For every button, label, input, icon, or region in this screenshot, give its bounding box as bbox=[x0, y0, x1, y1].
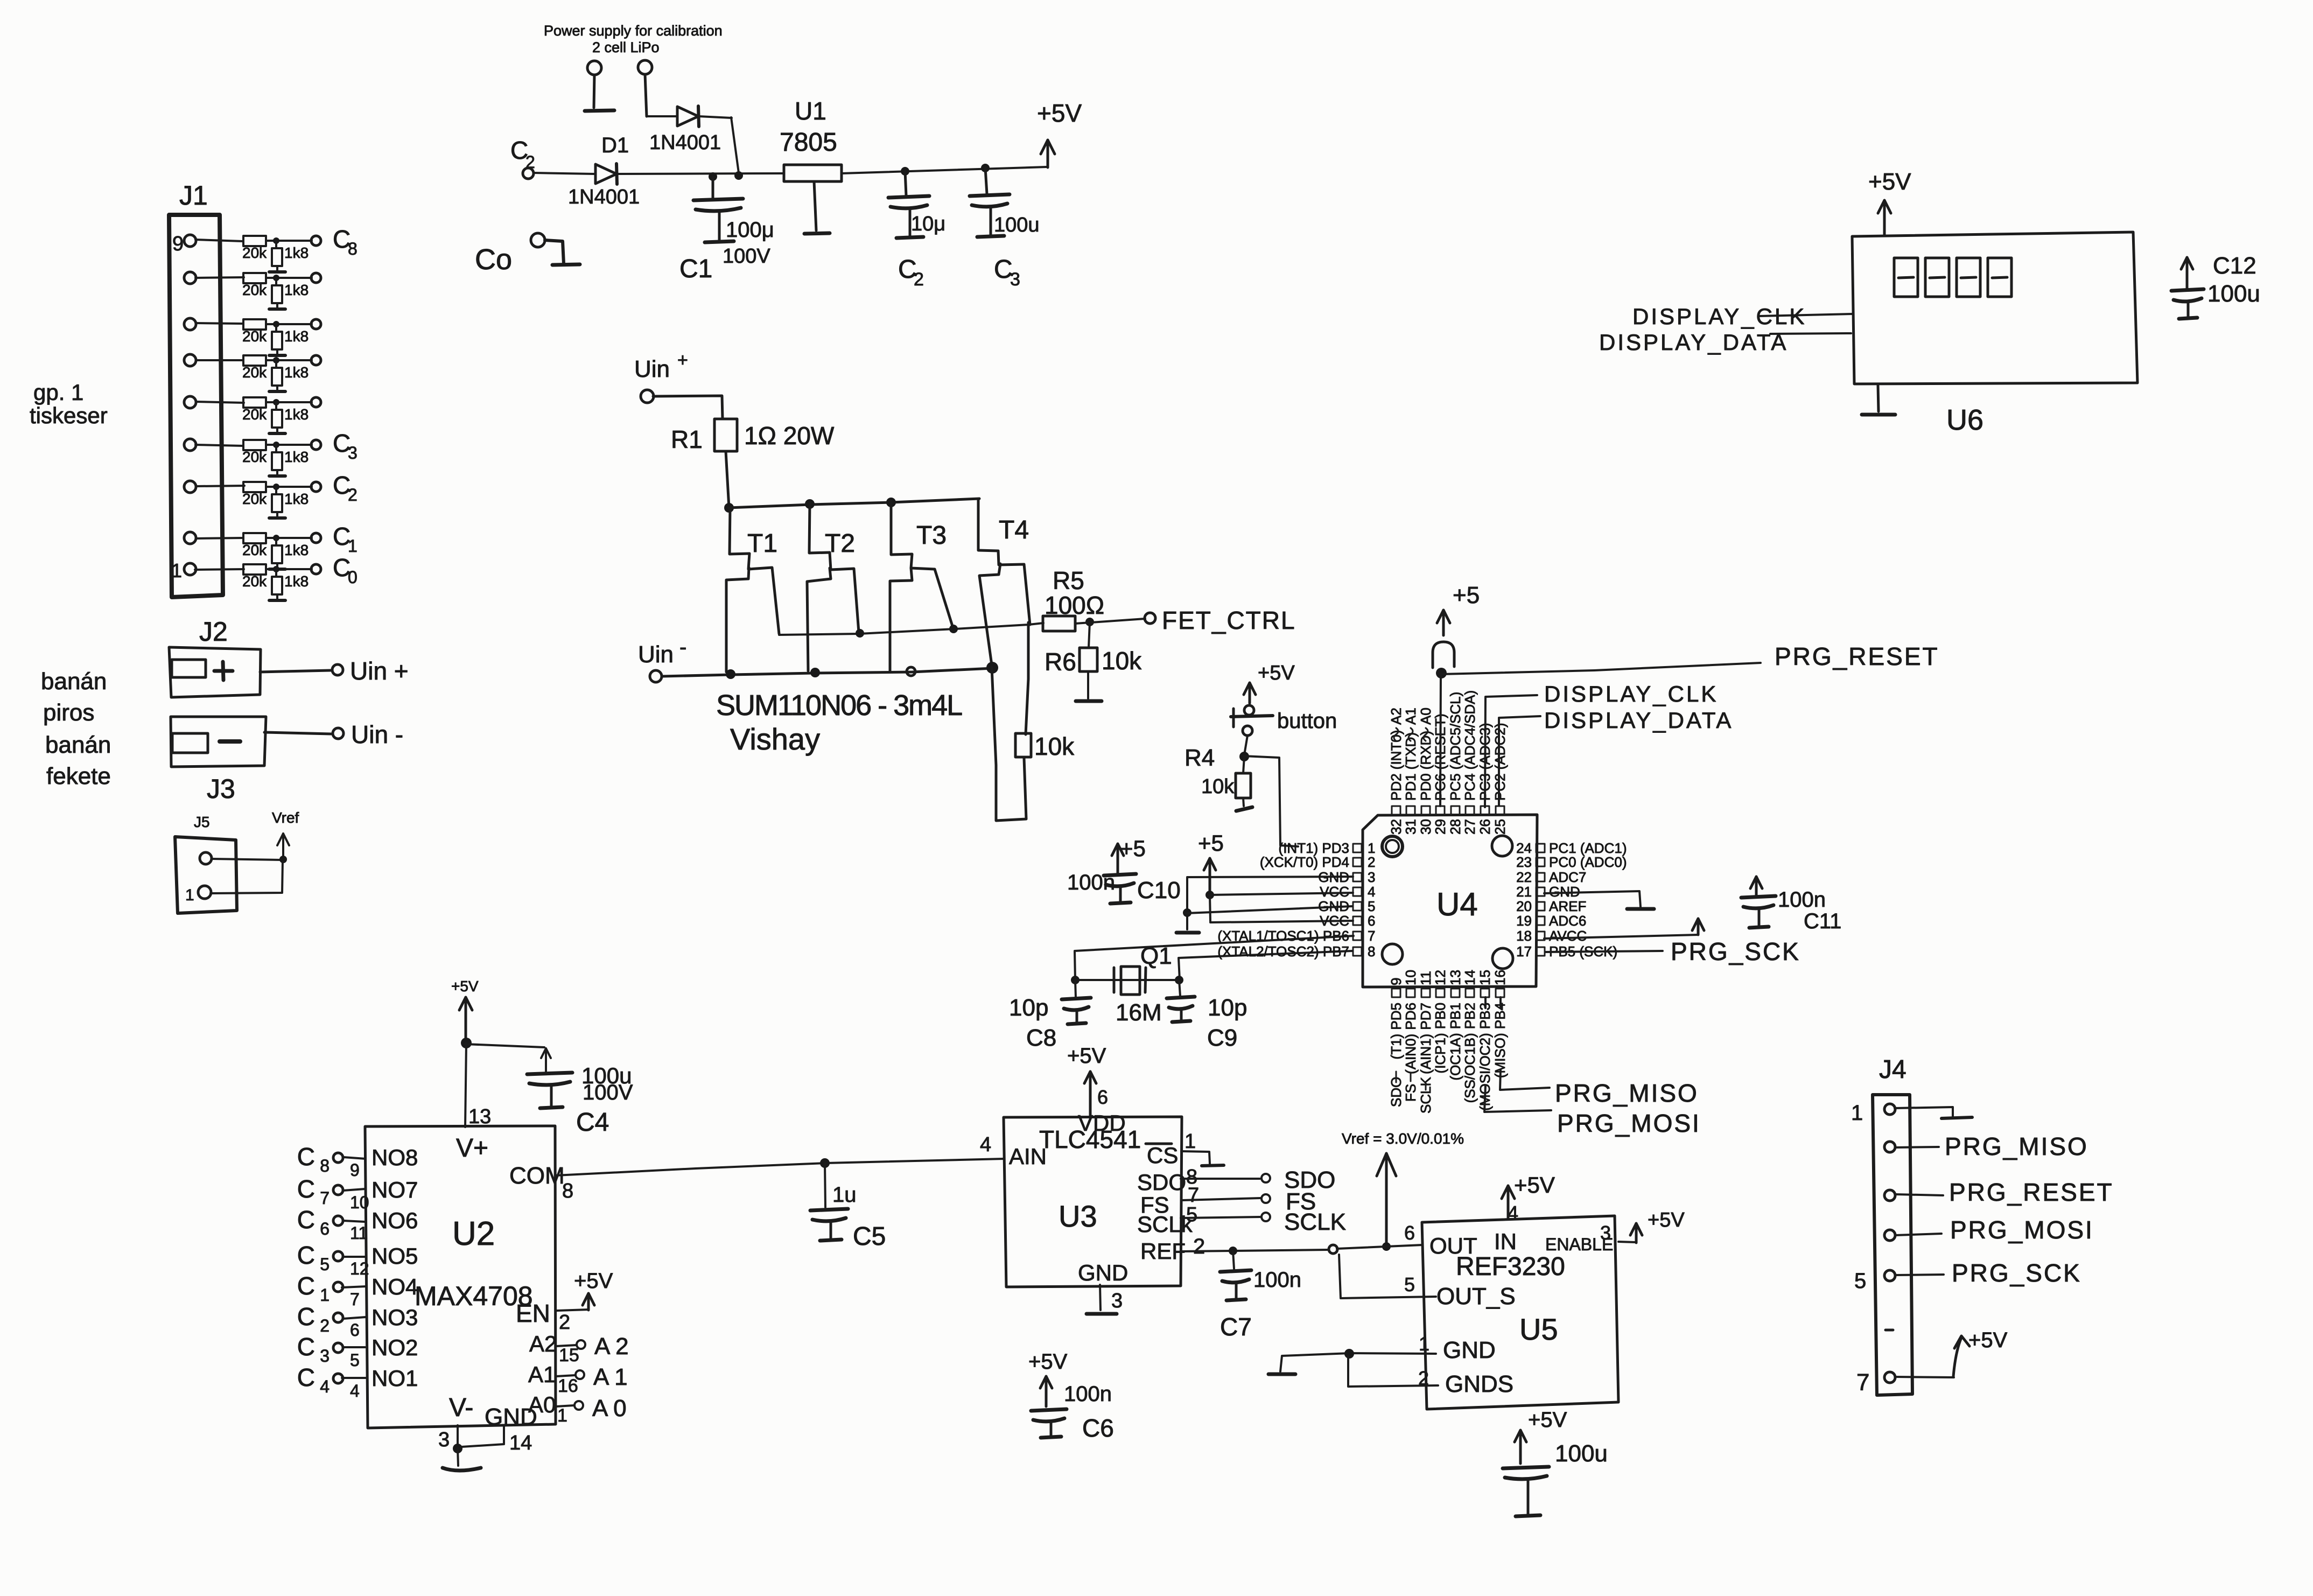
svg-text:14: 14 bbox=[509, 1432, 532, 1454]
svg-text:Co: Co bbox=[475, 243, 512, 276]
node drain rail bbox=[724, 503, 734, 513]
svg-text:20k: 20k bbox=[242, 244, 267, 261]
wire PRG_RESET bbox=[1441, 663, 1761, 674]
svg-text:1N4001: 1N4001 bbox=[568, 186, 640, 208]
transistor T4 bbox=[978, 500, 1030, 669]
label J3 bbox=[207, 774, 235, 804]
J1 pin row 6 wire bbox=[184, 439, 243, 451]
note banan piros bbox=[41, 668, 107, 726]
label Vishay bbox=[730, 722, 820, 756]
J1 pin row 4 wire bbox=[184, 354, 243, 366]
svg-text:C: C bbox=[297, 1143, 315, 1171]
svg-text:32: 32 bbox=[1388, 819, 1404, 835]
wire PRG_MOSI bbox=[1484, 997, 1551, 1112]
U5 pin 1 GND bbox=[1419, 1333, 1496, 1363]
svg-text:A2: A2 bbox=[1388, 708, 1404, 725]
resistor 20k row 5 bbox=[242, 397, 267, 423]
svg-text:PRG_MISO: PRG_MISO bbox=[1945, 1132, 2088, 1160]
svg-text:gp. 1: gp. 1 bbox=[33, 380, 83, 405]
svg-text:1Ω 20W: 1Ω 20W bbox=[744, 422, 835, 450]
svg-text:U4: U4 bbox=[1436, 886, 1478, 922]
resistor 20k row 9 bbox=[242, 564, 267, 590]
wire GND (pin21) bbox=[1544, 891, 1654, 909]
svg-text:CS: CS bbox=[1147, 1143, 1178, 1168]
svg-text:6: 6 bbox=[350, 1320, 360, 1340]
svg-text:C11: C11 bbox=[1804, 909, 1841, 933]
wire bbox=[1075, 979, 1179, 981]
U4 pin 6 VCC bbox=[1320, 913, 1375, 929]
net Vref 3.0V bbox=[1342, 1130, 1464, 1147]
svg-text:100n: 100n bbox=[1253, 1268, 1301, 1292]
capacitor C5 bbox=[810, 1163, 848, 1241]
svg-text:18: 18 bbox=[1516, 928, 1532, 944]
svg-text:29: 29 bbox=[1432, 819, 1448, 835]
U3 pin 1 CS bbox=[1146, 1130, 1224, 1168]
svg-text:100u: 100u bbox=[2207, 281, 2260, 307]
svg-text:2: 2 bbox=[559, 1311, 570, 1334]
junction bbox=[1239, 752, 1249, 761]
+5V (button) bbox=[1244, 662, 1295, 703]
capacitor C4 bbox=[527, 1073, 572, 1108]
wire DISPLAY_CLK bbox=[1485, 695, 1537, 807]
U3 pin 8 SDO bbox=[1137, 1166, 1335, 1195]
U1 ground bbox=[804, 181, 830, 234]
junction bbox=[986, 662, 998, 674]
svg-text:SCLK: SCLK bbox=[1418, 1076, 1434, 1114]
svg-text:AIN: AIN bbox=[1009, 1144, 1047, 1169]
svg-text:SCLk: SCLk bbox=[1137, 1212, 1193, 1237]
J1 pin 9 number bbox=[172, 233, 184, 255]
connector J2 bbox=[169, 617, 261, 697]
note banan fekete bbox=[45, 732, 111, 789]
U2 input NO3 (C2) bbox=[297, 1303, 418, 1340]
svg-text:SDO: SDO bbox=[1137, 1170, 1186, 1195]
svg-text:20k: 20k bbox=[242, 449, 267, 465]
svg-text:PRG_RESET: PRG_RESET bbox=[1949, 1178, 2114, 1206]
svg-text:12: 12 bbox=[350, 1259, 369, 1278]
U4 pin 31 PD1 (TXD) bbox=[1403, 732, 1419, 835]
wire bbox=[616, 173, 783, 174]
svg-text:GND: GND bbox=[1318, 898, 1349, 914]
svg-text:button: button bbox=[1277, 709, 1337, 733]
U2 input NO5 (C5) bbox=[297, 1241, 418, 1278]
svg-text:8: 8 bbox=[320, 1156, 330, 1175]
junction bbox=[709, 172, 717, 181]
svg-text:FET_CTRL: FET_CTRL bbox=[1162, 606, 1296, 634]
U6 digit 4 bbox=[1988, 258, 2011, 297]
svg-text:A 2: A 2 bbox=[594, 1333, 629, 1360]
node C2 input terminal bbox=[510, 136, 535, 179]
resistor R6 bbox=[1076, 622, 1102, 701]
label 100n bbox=[1778, 888, 1826, 912]
U4 corner mark bbox=[1382, 944, 1403, 964]
U4 pin 14 (SS/OC1B) PB2 bbox=[1462, 970, 1478, 1103]
connector J1 bbox=[169, 180, 223, 597]
U4 pin 30 PD0 (RXD) bbox=[1418, 731, 1434, 835]
svg-text:2 cell LiPo: 2 cell LiPo bbox=[592, 39, 660, 55]
IC U2 body bbox=[365, 1126, 556, 1428]
junction bbox=[273, 399, 279, 405]
wire PRG_MISO bbox=[1500, 997, 1550, 1090]
resistor R1 bbox=[671, 419, 835, 453]
U6 digit 1 bbox=[1894, 258, 1918, 297]
svg-text:R6: R6 bbox=[1045, 648, 1076, 676]
svg-text:VCC: VCC bbox=[1320, 913, 1349, 929]
svg-text:+5V: +5V bbox=[1648, 1209, 1685, 1231]
net PRG_SCK bbox=[1671, 937, 1800, 965]
svg-text:1k8: 1k8 bbox=[284, 328, 309, 345]
+5 (reset pull) bbox=[1437, 582, 1480, 635]
svg-text:3: 3 bbox=[1111, 1290, 1123, 1312]
wire bbox=[1440, 673, 1441, 806]
svg-text:U3: U3 bbox=[1059, 1199, 1097, 1233]
wire bbox=[266, 401, 312, 403]
U2 input NO6 (C6) bbox=[297, 1206, 418, 1243]
capacitor C12 bbox=[2171, 253, 2260, 319]
svg-text:OUT: OUT bbox=[1429, 1233, 1477, 1258]
svg-text:+5V: +5V bbox=[1067, 1044, 1106, 1068]
U2 pin 8 COM bbox=[509, 1163, 573, 1202]
resistor R5 bbox=[1043, 566, 1104, 631]
U2 input NO4 (C1) bbox=[297, 1272, 418, 1309]
svg-text:fekete: fekete bbox=[46, 763, 111, 789]
resistor 1k8 row 9 bbox=[269, 569, 309, 600]
wire drain rail bbox=[728, 499, 979, 508]
svg-text:1: 1 bbox=[185, 886, 194, 904]
U4 pin 28 PC5 (ADC5/SCL) bbox=[1447, 692, 1463, 835]
label 100u bbox=[1555, 1440, 1608, 1467]
svg-text:5: 5 bbox=[350, 1350, 360, 1370]
svg-text:VCC: VCC bbox=[1320, 884, 1349, 900]
output terminal row 6 bbox=[311, 440, 321, 450]
net Vref bbox=[272, 809, 299, 858]
svg-text:U2: U2 bbox=[452, 1215, 495, 1252]
capacitor C7 bbox=[1220, 1251, 1251, 1300]
svg-text:+5V: +5V bbox=[1528, 1408, 1567, 1432]
svg-text:6: 6 bbox=[1097, 1086, 1108, 1108]
resistor 20k row 4 bbox=[242, 355, 267, 381]
+5 (C10) bbox=[1120, 836, 1146, 861]
wire bbox=[465, 1044, 551, 1072]
U3 pin 3 GND bbox=[1078, 1260, 1128, 1314]
U3 pin 4 AIN bbox=[980, 1133, 1047, 1169]
U6 digit 2 bbox=[1925, 258, 1949, 297]
svg-text:100V: 100V bbox=[723, 245, 770, 268]
U5 pin 6 OUT bbox=[1404, 1222, 1477, 1258]
label D1 bbox=[601, 134, 629, 157]
svg-text:OUT_S: OUT_S bbox=[1436, 1283, 1516, 1310]
svg-text:26: 26 bbox=[1477, 819, 1493, 835]
U2 pin 16 A1 bbox=[528, 1362, 628, 1396]
U2 pin 3 V- bbox=[438, 1394, 473, 1451]
junction bbox=[1382, 1242, 1391, 1251]
svg-text:1k8: 1k8 bbox=[284, 573, 309, 590]
svg-text:(ICP1) PB0: (ICP1) PB0 bbox=[1432, 1003, 1448, 1074]
J1 pin row 3 wire bbox=[184, 318, 242, 330]
U4 pin 11 (AIN1) PD7 bbox=[1418, 971, 1434, 1074]
capacitor 100u (U5) bbox=[1503, 1408, 1567, 1516]
svg-text:banán: banán bbox=[41, 668, 107, 695]
wire bbox=[266, 240, 312, 242]
svg-text:1k8: 1k8 bbox=[284, 364, 309, 381]
svg-text:V-: V- bbox=[449, 1394, 473, 1422]
svg-text:0: 0 bbox=[348, 568, 358, 587]
svg-text:AVCC: AVCC bbox=[1549, 928, 1587, 944]
svg-text:PC5 (ADC5/SCL): PC5 (ADC5/SCL) bbox=[1447, 692, 1463, 801]
svg-text:Vref = 3.0V/0.01%: Vref = 3.0V/0.01% bbox=[1342, 1130, 1464, 1147]
svg-text:10p: 10p bbox=[1208, 995, 1247, 1021]
U3 pin 7 FS bbox=[1140, 1184, 1316, 1217]
junction bbox=[734, 171, 743, 180]
crystal Q1 16M bbox=[1114, 943, 1172, 1026]
svg-text:1: 1 bbox=[1851, 1101, 1863, 1125]
net DISPLAY_DATA bbox=[1544, 708, 1733, 733]
resistor 1k8 row 6 bbox=[269, 445, 309, 476]
U5 pin 4 IN bbox=[1494, 1172, 1555, 1254]
J1 pin row 8 wire bbox=[184, 532, 243, 544]
wire bbox=[1075, 619, 1145, 624]
svg-text:DISPLAY_DATA: DISPLAY_DATA bbox=[1544, 708, 1733, 733]
label U3 bbox=[1059, 1199, 1097, 1233]
wire bbox=[266, 537, 312, 539]
svg-text:100n: 100n bbox=[1778, 888, 1826, 912]
svg-text:DISPLAY_CLK: DISPLAY_CLK bbox=[1544, 681, 1718, 706]
svg-text:17: 17 bbox=[1516, 943, 1532, 960]
svg-text:3: 3 bbox=[1010, 269, 1020, 290]
svg-text:7: 7 bbox=[1368, 928, 1375, 944]
junction bbox=[273, 442, 279, 448]
junction bbox=[886, 498, 896, 507]
J5 pin 1 bbox=[200, 852, 212, 864]
U4 pin 1 (INT1) PD3 bbox=[1279, 840, 1376, 856]
svg-text:12: 12 bbox=[1432, 970, 1448, 985]
U2 input NO2 (C3) bbox=[297, 1333, 418, 1370]
label 10k bbox=[1102, 647, 1142, 675]
U4 pin 18 AVCC bbox=[1516, 928, 1587, 944]
svg-text:10: 10 bbox=[1403, 970, 1419, 985]
svg-text:C: C bbox=[297, 1303, 315, 1331]
svg-text:MAX4708: MAX4708 bbox=[415, 1281, 533, 1311]
wire to PD3 bbox=[1244, 756, 1298, 846]
U2 pin 14 GND bbox=[485, 1404, 537, 1454]
svg-text:100Ω: 100Ω bbox=[1045, 591, 1104, 619]
svg-text:10p: 10p bbox=[1009, 995, 1048, 1021]
net PRG_RESET bbox=[1775, 642, 1939, 670]
label 100u bbox=[726, 218, 774, 242]
svg-text:10μ: 10μ bbox=[911, 213, 945, 235]
resistor 1k8 row 7 bbox=[269, 487, 309, 518]
capacitor C10 bbox=[1104, 844, 1136, 904]
svg-text:(AIN0) PD6: (AIN0) PD6 bbox=[1403, 1003, 1419, 1074]
svg-text:+5: +5 bbox=[1198, 830, 1224, 856]
svg-text:+5V: +5V bbox=[1868, 169, 1911, 195]
U4 pin 3 GND bbox=[1318, 869, 1375, 885]
J4 pin 7 bbox=[1856, 1328, 2008, 1396]
svg-text:+5V: +5V bbox=[451, 978, 479, 995]
svg-text:1k8: 1k8 bbox=[284, 282, 309, 298]
svg-text:R5: R5 bbox=[1053, 566, 1084, 594]
label U6 bbox=[1946, 404, 1983, 436]
svg-text:piros: piros bbox=[43, 699, 94, 726]
U3 pin 2 REF bbox=[1140, 1235, 1205, 1264]
signal A1 bbox=[1403, 708, 1419, 741]
net PRG_MISO bbox=[1555, 1079, 1699, 1107]
svg-text:9: 9 bbox=[350, 1160, 360, 1180]
junction bbox=[273, 484, 279, 490]
svg-text:REF: REF bbox=[1140, 1238, 1186, 1264]
U4 corner mark bbox=[1382, 836, 1403, 857]
wire gate bus bbox=[779, 623, 1043, 635]
svg-text:Uin: Uin bbox=[634, 356, 670, 382]
label 1N4001 bbox=[568, 186, 640, 208]
U4 pin 32 PD2 (INT0) bbox=[1388, 730, 1404, 835]
svg-text:T4: T4 bbox=[999, 516, 1029, 544]
svg-text:+5V: +5V bbox=[1968, 1328, 2008, 1352]
svg-text:Vishay: Vishay bbox=[730, 722, 820, 756]
+5V (U2) bbox=[451, 978, 479, 1042]
svg-text:J4: J4 bbox=[1879, 1055, 1907, 1084]
svg-text:3: 3 bbox=[348, 443, 358, 463]
signal SCLK bbox=[1418, 1076, 1434, 1114]
label R4 bbox=[1184, 745, 1215, 771]
wire bbox=[1337, 1245, 1422, 1249]
svg-text:+5V: +5V bbox=[1258, 662, 1295, 684]
terminal Uin+ bbox=[332, 657, 409, 685]
U4 pin 12 (ICP1) PB0 bbox=[1432, 970, 1448, 1073]
wire bbox=[842, 167, 1047, 173]
svg-text:2: 2 bbox=[525, 152, 535, 172]
resistor R4 bbox=[1236, 757, 1252, 811]
U4 pin 8 (XTAL2/TOSC2) PB7 bbox=[1217, 943, 1375, 960]
output terminal row 2 bbox=[311, 273, 321, 283]
label 100n bbox=[1067, 871, 1115, 894]
U4 pin 27 PC4 (ADC4/SDA) bbox=[1462, 690, 1478, 835]
svg-text:1k8: 1k8 bbox=[284, 244, 309, 261]
junction bbox=[1205, 891, 1214, 899]
svg-text:+: + bbox=[677, 350, 688, 370]
svg-text:+5V: +5V bbox=[1037, 99, 1082, 127]
junction bbox=[1436, 668, 1447, 678]
J5 pin 2 bbox=[185, 886, 211, 904]
svg-text:Uin: Uin bbox=[638, 641, 674, 668]
svg-text:(SS/OC1B) PB2: (SS/OC1B) PB2 bbox=[1462, 1003, 1478, 1103]
svg-text:C5: C5 bbox=[853, 1222, 886, 1251]
svg-text:1k8: 1k8 bbox=[284, 449, 309, 465]
label U2 bbox=[452, 1215, 495, 1252]
svg-text:8: 8 bbox=[348, 239, 358, 258]
svg-text:3: 3 bbox=[320, 1346, 330, 1366]
capacitor C8 10p bbox=[1009, 980, 1091, 1051]
svg-text:PD1 (TXD): PD1 (TXD) bbox=[1403, 732, 1419, 801]
junction bbox=[1071, 976, 1080, 984]
J4 pin 2 bbox=[1884, 1132, 2088, 1160]
U4 pin 7 (XTAL1/TOSC1) PB6 bbox=[1217, 928, 1375, 944]
junction bbox=[1344, 1349, 1354, 1359]
wire bbox=[1210, 895, 1210, 921]
output terminal row 4 bbox=[311, 355, 321, 365]
junction bbox=[273, 357, 279, 363]
label C1 bbox=[679, 255, 712, 283]
U2 ground bbox=[443, 1448, 481, 1471]
svg-text:20k: 20k bbox=[242, 542, 267, 558]
wire DISPLAY_DATA (U6) bbox=[1770, 333, 1851, 334]
output terminal row 8 bbox=[311, 533, 321, 543]
J4 pin 4 bbox=[1884, 1216, 2094, 1244]
svg-text:3: 3 bbox=[1600, 1222, 1611, 1244]
wire bbox=[1348, 1356, 1438, 1387]
svg-text:(XTAL1/TOSC1) PB6: (XTAL1/TOSC1) PB6 bbox=[1217, 928, 1349, 944]
net DISPLAY_DATA (U6) bbox=[1599, 330, 1788, 355]
wire bbox=[266, 486, 312, 488]
svg-text:(XTAL2/TOSC2) PB7: (XTAL2/TOSC2) PB7 bbox=[1217, 943, 1349, 960]
svg-text:2: 2 bbox=[914, 269, 924, 290]
label C7 bbox=[1220, 1313, 1252, 1341]
svg-text:1: 1 bbox=[171, 559, 182, 582]
junction bbox=[810, 668, 820, 677]
svg-text:1k8: 1k8 bbox=[284, 406, 309, 423]
resistor 1k8 row 5 bbox=[269, 402, 309, 433]
wire bbox=[1244, 736, 1247, 755]
svg-text:GND: GND bbox=[1443, 1337, 1496, 1363]
wire bbox=[458, 1425, 504, 1447]
svg-text:R4: R4 bbox=[1184, 745, 1215, 771]
junction bbox=[949, 625, 958, 633]
svg-text:4: 4 bbox=[980, 1133, 991, 1156]
output terminal row 7 bbox=[311, 482, 321, 492]
wire XTAL1 bbox=[1075, 936, 1354, 981]
svg-text:DISPLAY_CLK: DISPLAY_CLK bbox=[1632, 304, 1806, 329]
svg-text:DISPLAY_DATA: DISPLAY_DATA bbox=[1599, 330, 1788, 355]
svg-text:NO7: NO7 bbox=[372, 1177, 418, 1202]
resistor 1k8 row 4 bbox=[269, 360, 309, 391]
svg-text:1N4001: 1N4001 bbox=[649, 131, 721, 154]
U5 pin 3 ENABLE bbox=[1545, 1209, 1685, 1254]
resistor 20k row 2 bbox=[242, 273, 267, 298]
svg-text:16M: 16M bbox=[1116, 999, 1162, 1026]
J4 pin 3 bbox=[1884, 1178, 2114, 1206]
transistor T3 bbox=[890, 501, 954, 672]
U4 pin 19 ADC6 bbox=[1516, 913, 1586, 929]
label 100n bbox=[1064, 1382, 1112, 1406]
junction bbox=[1085, 618, 1094, 626]
svg-text:1: 1 bbox=[1419, 1333, 1429, 1355]
label 100V bbox=[723, 245, 770, 268]
svg-text:(T1) PD5: (T1) PD5 bbox=[1388, 1003, 1404, 1059]
capacitor C11 bbox=[1741, 877, 1776, 928]
svg-text:NO8: NO8 bbox=[372, 1145, 418, 1170]
J1 pin row 7 wire bbox=[184, 481, 244, 493]
U6 digit 3 bbox=[1957, 258, 1980, 297]
svg-text:23: 23 bbox=[1516, 854, 1532, 870]
wire source rail bbox=[662, 668, 993, 676]
reset dome bbox=[1433, 642, 1454, 668]
U2 pin 13 V+ bbox=[456, 1105, 491, 1163]
svg-text:C7: C7 bbox=[1220, 1313, 1252, 1341]
U2 pin 15 A2 bbox=[529, 1331, 629, 1366]
label MAX4708 bbox=[415, 1281, 533, 1311]
svg-text:SUM110N06 - 3m4L: SUM110N06 - 3m4L bbox=[716, 689, 962, 722]
svg-text:4: 4 bbox=[320, 1377, 330, 1396]
U4 pin 4 VCC bbox=[1320, 884, 1375, 900]
U4 pin 10 (AIN0) PD6 bbox=[1403, 970, 1419, 1074]
U4 corner mark bbox=[1492, 948, 1513, 969]
U4 pin 13 (OC1A) PB1 bbox=[1447, 970, 1463, 1080]
svg-text:100u: 100u bbox=[994, 214, 1040, 236]
U4 pin 25 PC2 (ADC2) bbox=[1492, 723, 1508, 835]
svg-text:NO1: NO1 bbox=[372, 1366, 418, 1391]
J4 pin 5 bbox=[1854, 1259, 2081, 1293]
output terminal row 1 bbox=[311, 236, 321, 246]
